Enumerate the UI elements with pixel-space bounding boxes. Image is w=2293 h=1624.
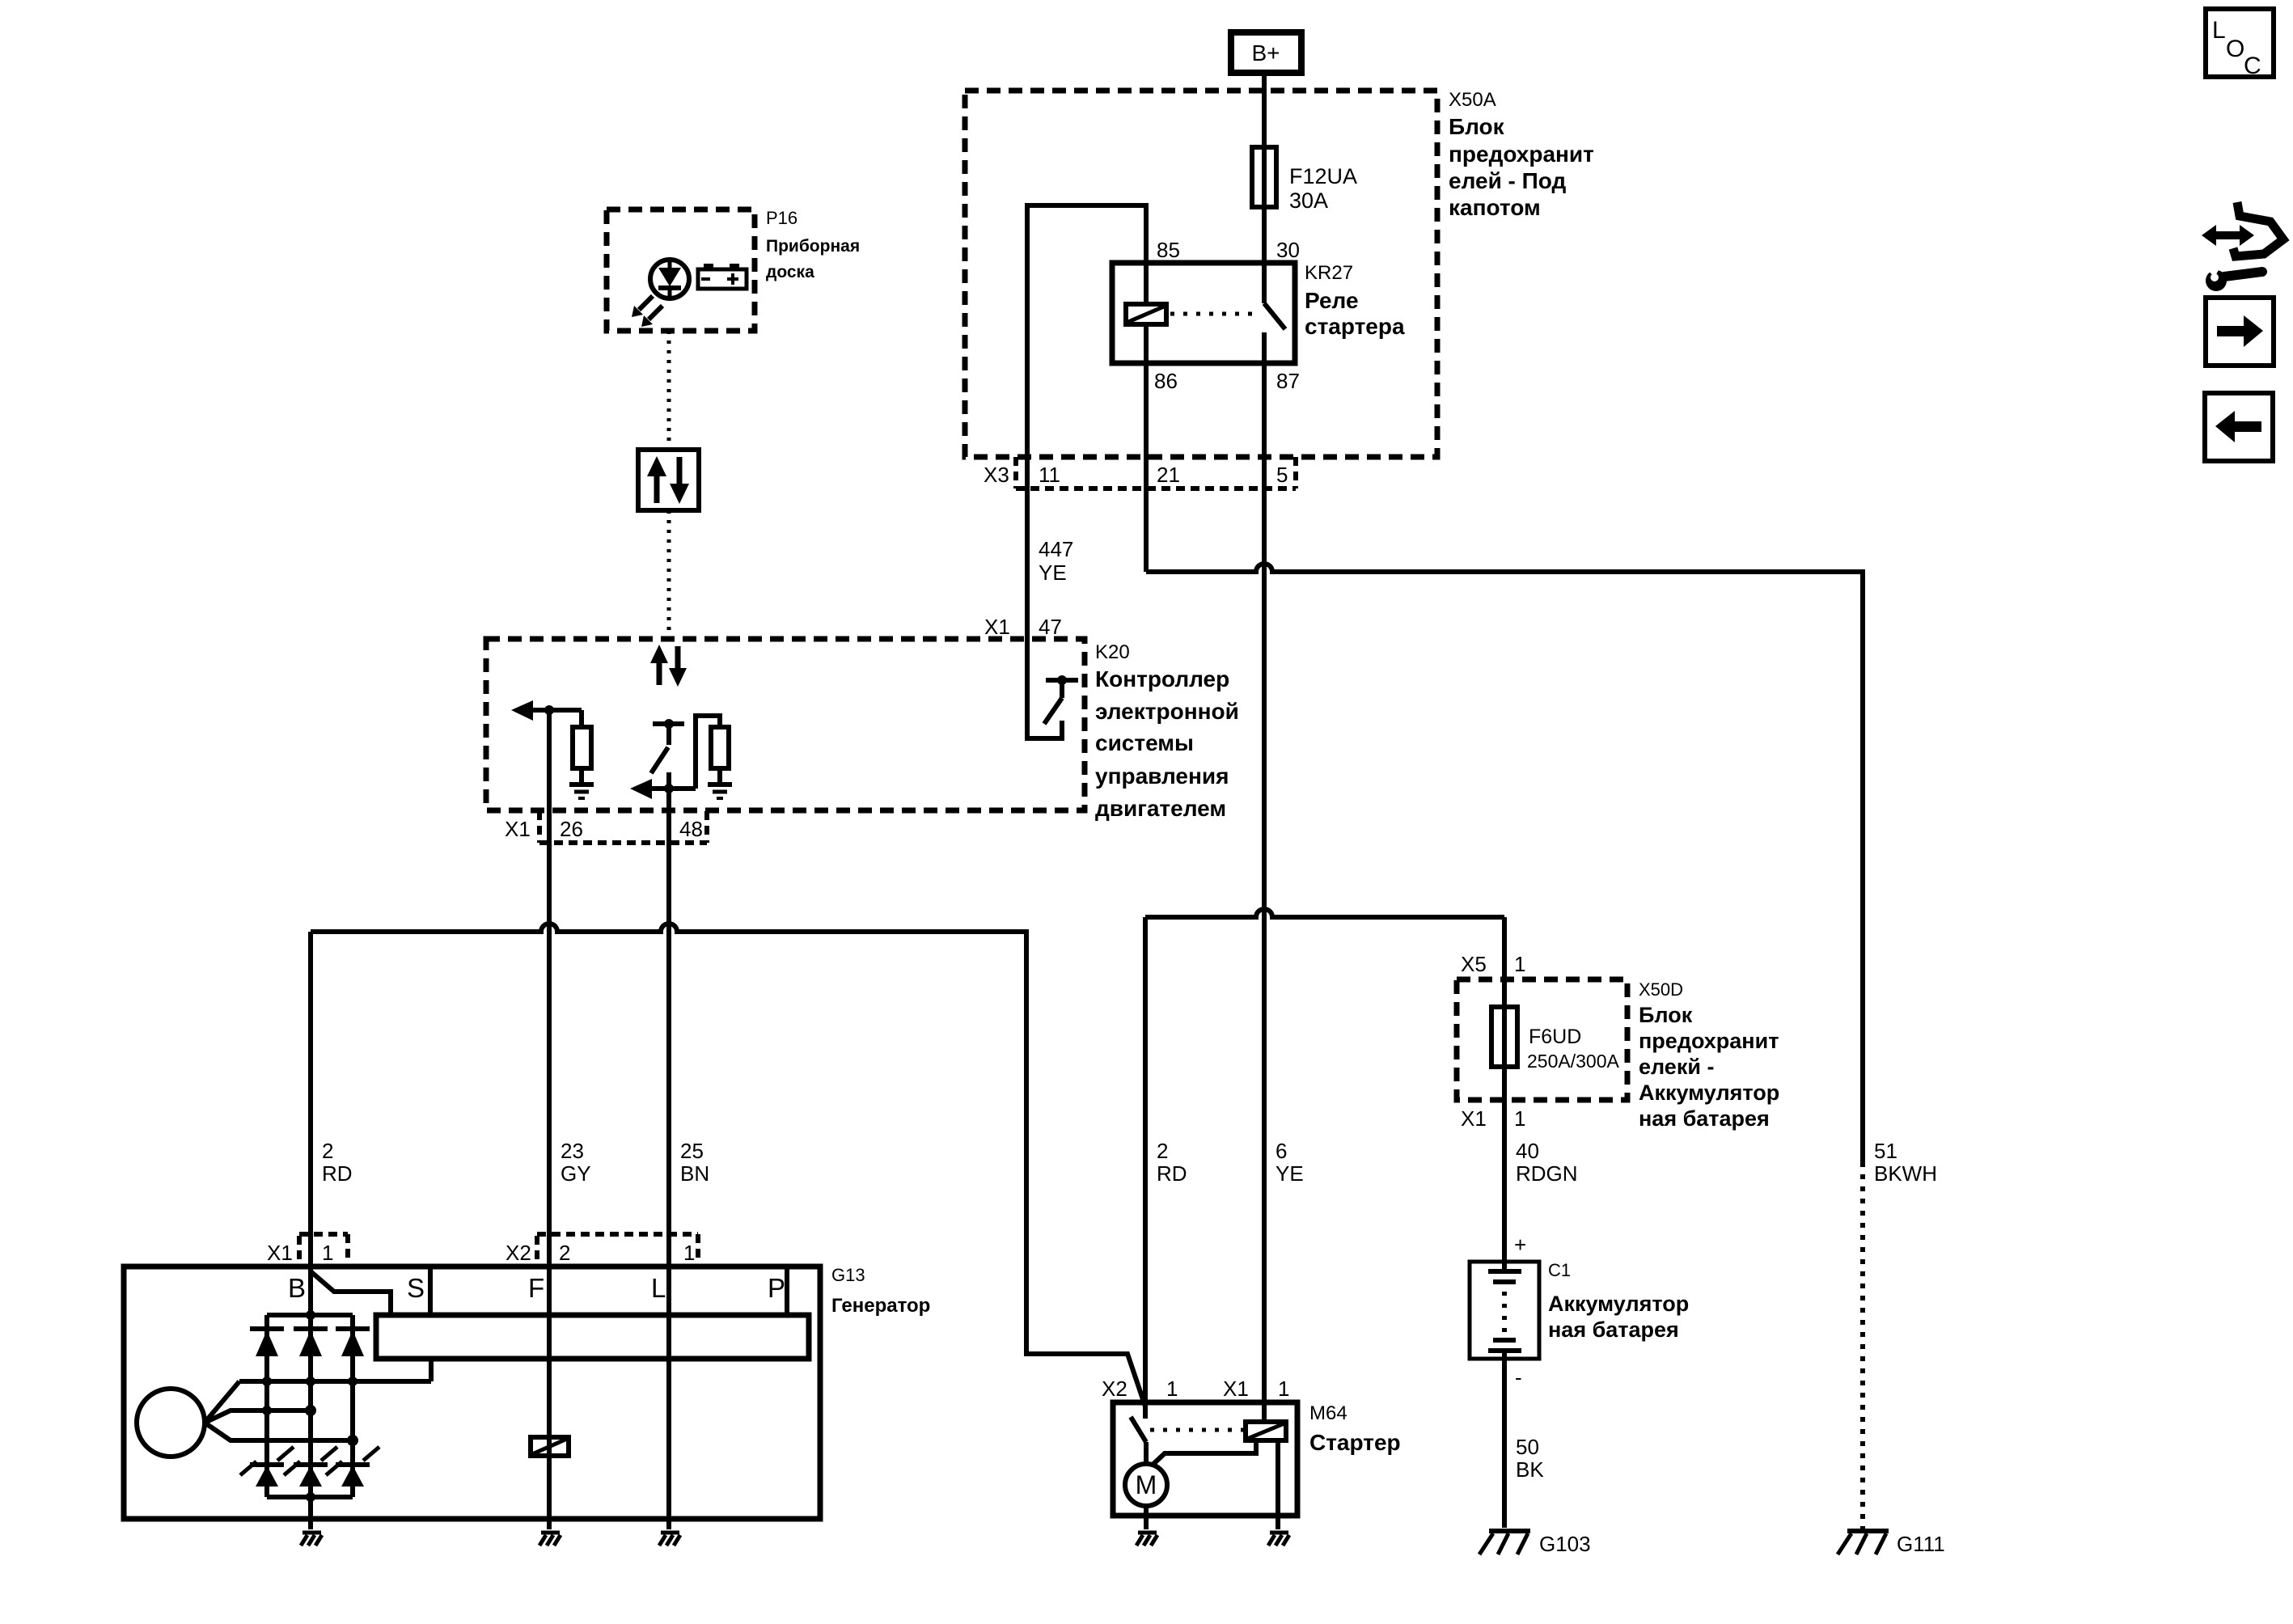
svg-text:системы: системы <box>1095 730 1194 755</box>
rectifier diode 3 <box>336 1329 370 1356</box>
svg-text:X3: X3 <box>984 463 1009 487</box>
svg-text:Реле: Реле <box>1305 288 1359 313</box>
rectifier column stubs to bottom rail <box>267 1486 353 1497</box>
svg-text:Генератор: Генератор <box>831 1295 930 1317</box>
K20 output arrow on pin 48 net <box>630 779 696 799</box>
generator ground at L <box>659 1533 680 1546</box>
svg-text:Приборная: Приборная <box>766 237 860 256</box>
relay KR27 switch contact 30-87 <box>1264 263 1285 363</box>
svg-text:51: 51 <box>1874 1139 1897 1163</box>
page corner LOC icon <box>2206 9 2274 79</box>
wire 40 RDGN fuse to battery <box>1502 1067 1507 1262</box>
starter ground 2 <box>1268 1533 1289 1546</box>
svg-text:BN: BN <box>680 1161 709 1186</box>
svg-text:21: 21 <box>1157 463 1180 487</box>
ground G103 <box>1479 1531 1591 1556</box>
svg-text:25: 25 <box>680 1139 704 1163</box>
battery C1 plates <box>1488 1262 1521 1360</box>
svg-text:P16: P16 <box>766 208 797 228</box>
generator rectifier column 1 wire <box>264 1315 269 1486</box>
wire fuse to relay pin 30 <box>1262 207 1267 263</box>
svg-text:YE: YE <box>1276 1161 1304 1186</box>
relay KR27 dotted actuator link <box>1170 312 1259 316</box>
starter M64 connector labels <box>1102 1377 1289 1401</box>
instrument panel P16 dashed box <box>607 209 755 331</box>
svg-text:26: 26 <box>560 817 583 841</box>
controller K20 dashed box <box>486 639 1085 810</box>
connector X2 bracket at generator <box>537 1234 698 1259</box>
svg-text:40: 40 <box>1516 1139 1539 1163</box>
label X1 47 at K20 pin <box>984 615 1062 639</box>
label C1 battery <box>1548 1260 1689 1342</box>
generator phase rail 2 <box>205 1410 311 1423</box>
generator phase rail 2 junction dots <box>262 1405 316 1416</box>
svg-text:Контроллер: Контроллер <box>1095 666 1229 691</box>
svg-text:L: L <box>651 1273 666 1303</box>
generator G13 box <box>124 1267 820 1519</box>
wire 2 RD right: bus down to starter X2-1 <box>1143 917 1148 1419</box>
svg-text:5: 5 <box>1276 463 1288 487</box>
svg-text:елекй -: елекй - <box>1639 1055 1714 1079</box>
generator phase rail 3 <box>205 1423 353 1440</box>
svg-text:G103: G103 <box>1539 1532 1591 1556</box>
K20 pull resistor on pin 26 net <box>573 710 591 783</box>
svg-text:-: - <box>1515 1365 1522 1389</box>
generator B wire through box to ground <box>308 1267 313 1529</box>
diagnostic wrench icon <box>2202 202 2283 291</box>
svg-text:X2: X2 <box>1102 1377 1127 1401</box>
svg-text:B: B <box>288 1273 306 1303</box>
svg-text:86: 86 <box>1154 369 1178 393</box>
svg-text:электронной: электронной <box>1095 699 1239 724</box>
svg-text:2: 2 <box>1157 1139 1168 1163</box>
indicator LED in P16 <box>632 260 689 327</box>
svg-text:BKWH: BKWH <box>1874 1161 1937 1186</box>
svg-text:87: 87 <box>1276 369 1300 393</box>
wire 25 BN: K20 pin 48 to generator L <box>666 772 671 1529</box>
svg-text:1: 1 <box>1166 1377 1178 1401</box>
starter ground 1 <box>1136 1533 1157 1546</box>
generator field winding on F wire <box>531 1437 569 1456</box>
generator ground at B <box>301 1533 322 1546</box>
starter M64 box <box>1113 1402 1297 1516</box>
connector X5 labels at battery fuse <box>1461 952 1525 976</box>
svg-text:X5: X5 <box>1461 952 1487 976</box>
svg-text:BK: BK <box>1516 1457 1544 1482</box>
wire 23 GY: K20 pin 26 to generator F <box>547 710 552 1529</box>
svg-text:F12UA: F12UA <box>1289 164 1357 188</box>
connector X2 labels at generator <box>506 1241 695 1265</box>
svg-text:X50D: X50D <box>1639 979 1683 1000</box>
svg-text:Аккумулятор: Аккумулятор <box>1639 1081 1779 1105</box>
generator phase rail 1 junction dots <box>262 1377 357 1386</box>
generator phase rail 1 feed diagonal <box>205 1381 239 1423</box>
svg-text:B+: B+ <box>1251 40 1280 66</box>
svg-text:ная батарея: ная батарея <box>1639 1106 1770 1131</box>
svg-text:RDGN: RDGN <box>1516 1161 1578 1186</box>
dotted serial link P16 to arrows icon <box>667 331 671 450</box>
fuse F6UD 250A/300A <box>1491 1007 1619 1072</box>
serial data arrows icon inside K20 <box>650 645 687 687</box>
wire relay pin 86 down to X3-21 <box>1144 363 1149 572</box>
svg-text:X1: X1 <box>505 817 531 841</box>
K20 internal switch on pin 48 net <box>651 719 684 773</box>
svg-text:F: F <box>528 1273 544 1303</box>
svg-text:1: 1 <box>1514 952 1525 976</box>
svg-text:ная батарея: ная батарея <box>1548 1317 1679 1342</box>
battery icon in P16 <box>698 264 747 289</box>
K20 internal ground 2 <box>708 785 732 798</box>
svg-text:S: S <box>407 1273 425 1303</box>
svg-text:2: 2 <box>322 1139 333 1163</box>
bus starter X2-1 to battery X5-1 with hop over B+ wire <box>1145 909 1504 917</box>
svg-text:C1: C1 <box>1548 1260 1571 1280</box>
svg-text:G111: G111 <box>1897 1532 1945 1556</box>
rectifier diode 2 <box>294 1329 328 1356</box>
connector X3 strip <box>1016 457 1296 488</box>
K20 output arrow to pin 26 <box>511 700 582 721</box>
svg-text:48: 48 <box>679 817 703 841</box>
label X50D battery fuse block <box>1639 979 1779 1131</box>
back arrow icon <box>2205 393 2273 461</box>
starter switch contact <box>1131 1402 1146 1465</box>
svg-text:447: 447 <box>1039 537 1073 561</box>
label P16 instrument panel <box>766 208 860 281</box>
svg-text:M: M <box>1136 1470 1157 1499</box>
wire B+ down to fuse F12UA <box>1262 73 1267 147</box>
svg-text:30A: 30A <box>1289 188 1328 213</box>
dotted serial link arrows icon to K20 <box>667 510 671 639</box>
svg-text:X1: X1 <box>1461 1106 1487 1131</box>
svg-text:Стартер: Стартер <box>1309 1430 1401 1455</box>
generator top rail of rectifier <box>267 1313 353 1317</box>
connector X1 labels under X50D <box>1461 1106 1525 1131</box>
connector X1 labels at generator <box>267 1241 333 1265</box>
svg-text:капотом: капотом <box>1449 195 1541 220</box>
svg-text:доска: доска <box>766 263 814 281</box>
wire label 25 BN <box>680 1139 709 1186</box>
label K20 engine control module <box>1095 641 1239 821</box>
svg-text:X1: X1 <box>267 1241 293 1265</box>
svg-text:YE: YE <box>1039 560 1067 585</box>
svg-text:23: 23 <box>561 1139 584 1163</box>
svg-text:11: 11 <box>1039 463 1060 487</box>
label G13 generator <box>831 1265 930 1317</box>
svg-text:GY: GY <box>561 1161 591 1186</box>
wire label 51 BKWH <box>1874 1139 1937 1186</box>
svg-text:X2: X2 <box>506 1241 531 1265</box>
connector X3 pin labels <box>984 463 1288 487</box>
svg-text:1: 1 <box>322 1241 333 1265</box>
svg-text:G13: G13 <box>831 1265 865 1285</box>
K20 pull resistor on pin 48 net <box>696 716 729 789</box>
K20 starter request switch at pin 47 <box>1027 639 1078 738</box>
svg-text:+: + <box>1514 1233 1526 1257</box>
fuse F12UA 30A <box>1252 147 1357 213</box>
serial data arrows box <box>638 450 699 510</box>
svg-text:Аккумулятор: Аккумулятор <box>1548 1292 1689 1316</box>
wire label 40 RDGN <box>1516 1139 1578 1186</box>
wire label 447 YE <box>1039 537 1073 585</box>
generator stator winding circle <box>137 1389 205 1457</box>
wire label 2 RD left <box>322 1139 353 1186</box>
svg-text:M64: M64 <box>1309 1402 1347 1424</box>
svg-text:250A/300A: 250A/300A <box>1527 1051 1619 1072</box>
wire relay pin 85 to X3-11 and down to K20 pin 47 (447 YE) <box>1027 205 1146 639</box>
battery C1 box <box>1470 1262 1539 1359</box>
svg-text:X50A: X50A <box>1449 89 1496 111</box>
svg-text:F6UD: F6UD <box>1529 1026 1581 1048</box>
ground G111 <box>1838 1531 1945 1556</box>
svg-text:двигателем: двигателем <box>1095 796 1226 821</box>
svg-text:1: 1 <box>1278 1377 1289 1401</box>
svg-text:RD: RD <box>322 1161 353 1186</box>
connector X1 strip under K20 <box>539 811 707 843</box>
svg-text:X1: X1 <box>984 615 1010 639</box>
fuse block X50D dashed box <box>1457 979 1627 1100</box>
wire label 6 YE <box>1276 1139 1304 1186</box>
svg-text:6: 6 <box>1276 1139 1287 1163</box>
starter motor M <box>1125 1464 1167 1506</box>
generator phase rail 1 <box>239 1379 431 1384</box>
wire 51 BKWH dotted section <box>1860 1162 1865 1531</box>
generator bottom rail of rectifier <box>267 1495 353 1499</box>
junction dot of B wire on top rail <box>306 1310 315 1320</box>
svg-text:предохранит: предохранит <box>1449 142 1594 167</box>
svg-text:X1: X1 <box>1223 1377 1249 1401</box>
starter motor wire to ground <box>1144 1506 1149 1529</box>
generator S terminal separator <box>428 1267 433 1315</box>
generator rectifier column 3 wire <box>350 1315 355 1486</box>
generator terminal letters <box>288 1273 785 1303</box>
rectifier thyristor 2 <box>284 1447 337 1487</box>
generator P terminal separator <box>785 1267 789 1315</box>
power node B+ <box>1231 32 1301 73</box>
forward arrow icon <box>2206 298 2274 366</box>
connector X1 bracket at generator B <box>299 1234 348 1259</box>
wire 2 RD left: bus down to generator B <box>308 932 313 1267</box>
wire battery bus to fuse F6UD <box>1502 917 1507 1007</box>
svg-text:RD: RD <box>1157 1161 1187 1186</box>
svg-text:предохранит: предохранит <box>1639 1029 1779 1053</box>
svg-text:50: 50 <box>1516 1435 1539 1459</box>
rectifier diode 1 <box>250 1329 284 1356</box>
generator ground at F <box>539 1533 561 1546</box>
svg-text:O: O <box>2226 36 2244 62</box>
relay KR27 pin labels <box>1154 238 1300 393</box>
K20 internal ground 1 <box>569 785 594 798</box>
svg-text:елей - Под: елей - Под <box>1449 168 1567 193</box>
wire label 23 GY <box>561 1139 591 1186</box>
label KR27 starter relay <box>1305 262 1405 339</box>
relay KR27 coil with pin 85/86 stubs <box>1126 263 1166 363</box>
svg-text:P: P <box>768 1273 785 1303</box>
starter dotted actuator link <box>1150 1428 1244 1432</box>
starter solenoid to motor link <box>1152 1440 1256 1465</box>
bus generator B to starter X2: horizontal with hops <box>311 924 1145 1406</box>
starter solenoid coil <box>1246 1402 1286 1440</box>
svg-text:управления: управления <box>1095 763 1229 789</box>
svg-text:30: 30 <box>1276 238 1300 262</box>
junction node on pin 26 wire <box>544 705 554 715</box>
svg-text:Блок: Блок <box>1639 1003 1693 1027</box>
starter solenoid return wire to ground <box>1276 1440 1280 1529</box>
connector X1 strip labels <box>505 817 703 841</box>
svg-text:1: 1 <box>1514 1106 1525 1131</box>
junction dot of B wire on bottom rail <box>306 1492 315 1502</box>
rectifier thyristor 1 <box>240 1447 294 1487</box>
generator regulator bar <box>376 1315 809 1359</box>
generator S cell bottom line <box>375 1313 430 1317</box>
net pin86 to ground G111: bus with hop over B+ wire <box>1146 564 1863 1162</box>
svg-text:Блок: Блок <box>1449 114 1505 139</box>
fuse block X50A dashed box <box>965 91 1437 457</box>
wire 50 BK battery to ground <box>1502 1359 1507 1528</box>
svg-text:L: L <box>2212 17 2226 44</box>
generator S column below bar to phase rail <box>429 1359 434 1381</box>
svg-text:C: C <box>2244 53 2261 79</box>
svg-text:1: 1 <box>683 1241 695 1265</box>
generator B to S internal link <box>311 1271 391 1315</box>
rectifier thyristor 3 <box>326 1447 379 1487</box>
svg-text:K20: K20 <box>1095 641 1130 663</box>
relay KR27 box <box>1112 263 1295 363</box>
wire label 50 BK <box>1516 1435 1544 1482</box>
label X50A fuse block <box>1449 89 1594 220</box>
wire relay pin 87 / B+ feed down to starter X1-1 (6 YE) <box>1262 363 1267 1422</box>
svg-text:стартера: стартера <box>1305 314 1405 339</box>
generator phase rail 3 junction dot <box>347 1435 358 1446</box>
svg-text:2: 2 <box>559 1241 570 1265</box>
svg-text:47: 47 <box>1039 615 1062 639</box>
svg-text:85: 85 <box>1157 238 1180 262</box>
label M64 starter <box>1309 1402 1401 1455</box>
wire label 2 RD right <box>1157 1139 1187 1186</box>
svg-text:KR27: KR27 <box>1305 262 1353 284</box>
